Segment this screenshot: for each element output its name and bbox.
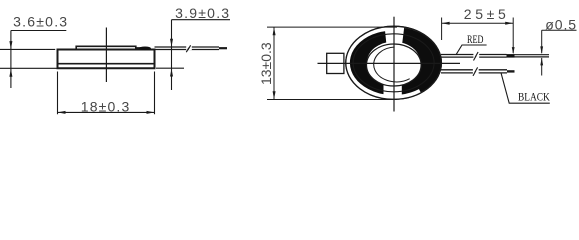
svg-text:18±0.3: 18±0.3 bbox=[81, 99, 130, 115]
svg-text:ø0.5: ø0.5 bbox=[545, 16, 576, 32]
svg-text:3.9±0.3: 3.9±0.3 bbox=[175, 5, 229, 21]
svg-text:BLACK: BLACK bbox=[518, 90, 550, 104]
svg-text:13±0.3: 13±0.3 bbox=[258, 42, 274, 85]
svg-text:RED: RED bbox=[467, 32, 484, 46]
svg-text:3.6±0.3: 3.6±0.3 bbox=[13, 13, 67, 29]
